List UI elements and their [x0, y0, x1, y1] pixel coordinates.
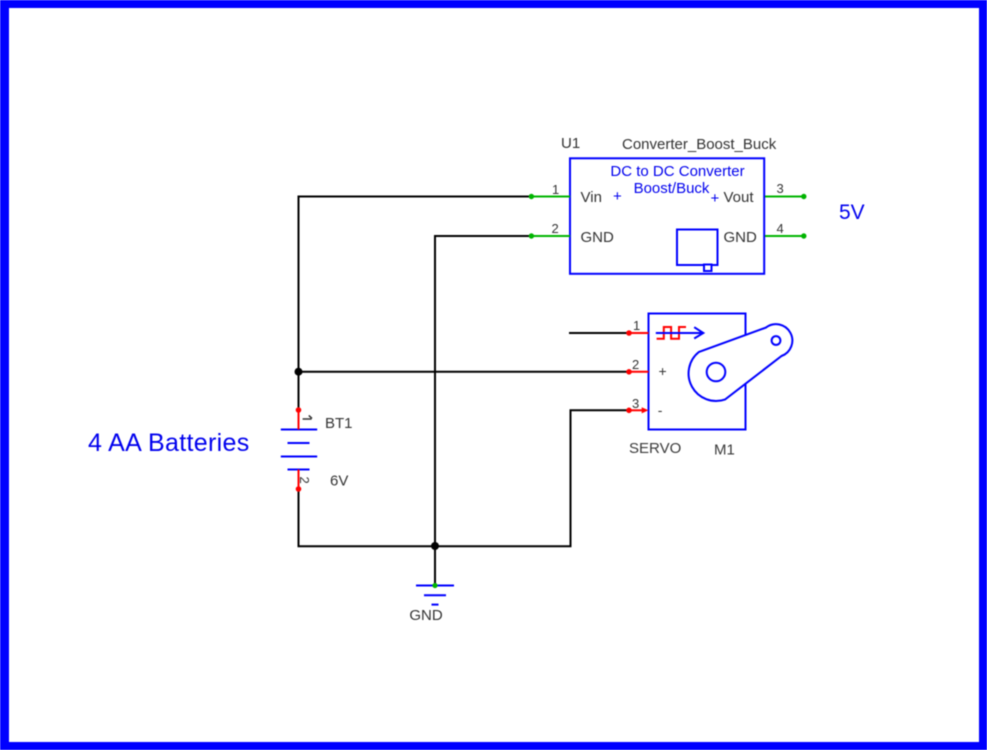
svg-text:M1: M1 [714, 442, 735, 459]
svg-text:4: 4 [777, 221, 784, 236]
svg-text:Boost/Buck: Boost/Buck [634, 180, 710, 197]
svg-text:1: 1 [552, 182, 559, 197]
svg-text:GND: GND [409, 607, 443, 624]
svg-text:GND: GND [581, 229, 615, 246]
svg-text:BT1: BT1 [325, 415, 353, 432]
svg-text:2: 2 [552, 221, 559, 236]
svg-text:5V: 5V [839, 201, 865, 224]
svg-text:1: 1 [633, 318, 640, 333]
svg-text:Vout: Vout [724, 189, 755, 206]
svg-text:6V: 6V [330, 473, 348, 490]
svg-text:3: 3 [632, 396, 639, 411]
svg-text:2: 2 [632, 357, 639, 372]
svg-text:U1: U1 [561, 135, 580, 152]
svg-text:3: 3 [777, 181, 784, 196]
svg-text:Vin: Vin [581, 189, 602, 206]
svg-text:-: - [658, 402, 663, 418]
svg-text:+: + [613, 188, 622, 205]
svg-text:DC to DC Converter: DC to DC Converter [610, 163, 744, 180]
svg-text:4 AA Batteries: 4 AA Batteries [88, 429, 250, 457]
svg-text:SERVO: SERVO [629, 440, 681, 457]
svg-text:Converter_Boost_Buck: Converter_Boost_Buck [622, 136, 777, 153]
svg-text:+: + [659, 363, 667, 379]
svg-text:2: 2 [297, 477, 312, 484]
svg-text:+: + [711, 190, 720, 207]
svg-text:GND: GND [724, 229, 758, 246]
